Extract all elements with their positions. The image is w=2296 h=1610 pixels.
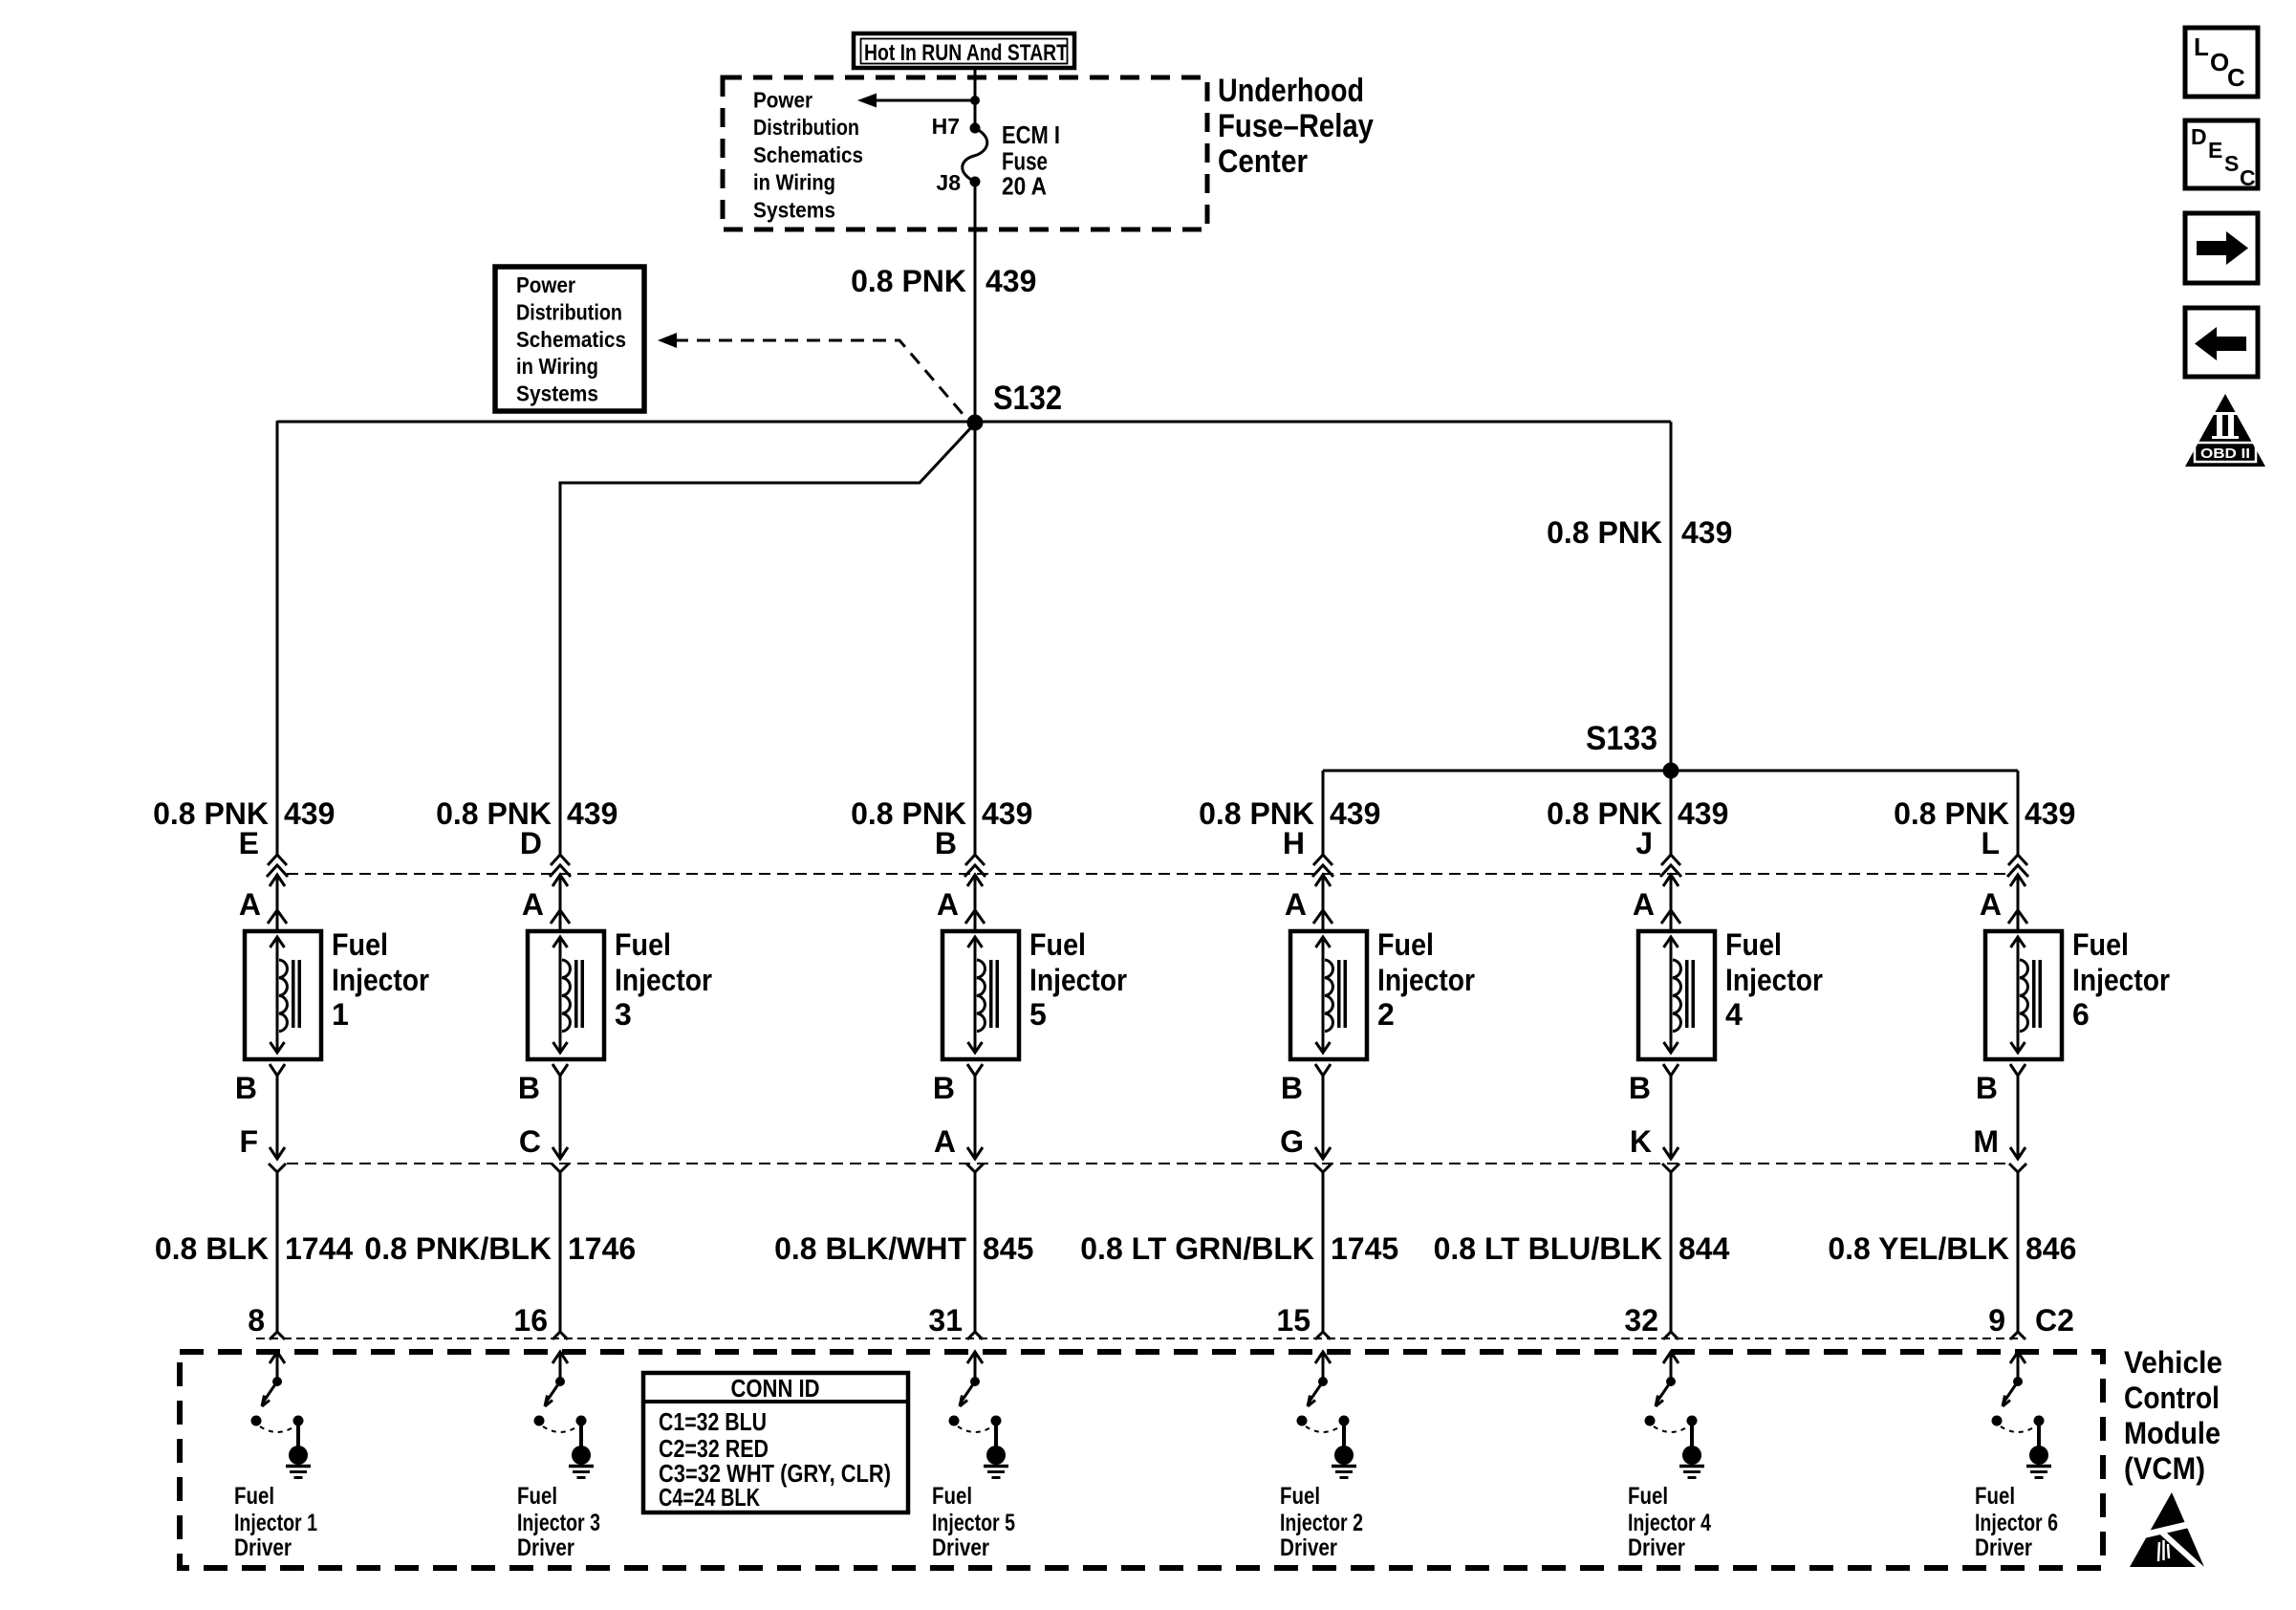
driver transistor (fuel injector 3 driver)	[534, 1352, 587, 1447]
svg-text:Systems: Systems	[516, 381, 598, 406]
svg-text:0.8 YEL/BLK: 0.8 YEL/BLK	[1828, 1231, 2009, 1266]
label Fuel Injector 5	[1029, 927, 1127, 1032]
svg-text:J8: J8	[936, 170, 961, 195]
label Underhood Fuse-Relay Center	[1218, 73, 1374, 180]
svg-text:Fuel: Fuel	[332, 927, 388, 962]
svg-text:Injector 6: Injector 6	[1975, 1510, 2058, 1536]
svg-text:16: 16	[513, 1303, 548, 1338]
wire label 0.8 PNK 439 (injector 2 feed)	[1199, 796, 1380, 831]
icon DESC button	[2185, 120, 2258, 190]
svg-text:E: E	[239, 826, 259, 860]
table CONN ID	[643, 1373, 908, 1512]
driver transistor (fuel injector 4 driver)	[1645, 1352, 1698, 1447]
svg-text:B: B	[235, 1071, 257, 1105]
label Fuel Injector 3 Driver	[517, 1483, 600, 1561]
svg-text:32: 32	[1624, 1303, 1658, 1338]
icon back arrow button	[2185, 308, 2258, 377]
pin A (injector 6)	[1980, 887, 2027, 924]
wire drop to injector 4	[1670, 771, 1673, 857]
svg-text:ECM I: ECM I	[1002, 122, 1060, 149]
wire injector 6 pin B to connector	[2017, 1076, 2020, 1159]
svg-text:Injector: Injector	[2072, 963, 2170, 997]
connector terminal A (injector 5 return)	[934, 1124, 984, 1172]
svg-text:Driver: Driver	[1280, 1534, 1337, 1561]
svg-text:0.8 PNK: 0.8 PNK	[1547, 515, 1662, 550]
svg-text:Fuel: Fuel	[1725, 927, 1782, 962]
label Fuel Injector 6	[2072, 927, 2170, 1032]
label Fuel Injector 3	[615, 927, 712, 1032]
wire S133 bus	[1323, 770, 2018, 772]
ground (injector 6 driver)	[2026, 1446, 2051, 1478]
svg-text:439: 439	[284, 796, 335, 831]
pin J8	[936, 170, 980, 195]
svg-text:Control: Control	[2124, 1381, 2220, 1415]
svg-text:0.8 BLK/WHT: 0.8 BLK/WHT	[774, 1231, 966, 1266]
pin 9 (VCM)	[1988, 1303, 2074, 1339]
svg-text:(VCM): (VCM)	[2124, 1451, 2205, 1486]
svg-text:Driver: Driver	[1975, 1534, 2032, 1561]
svg-text:S: S	[2224, 151, 2239, 176]
svg-text:Driver: Driver	[1628, 1534, 1685, 1561]
svg-text:Underhood: Underhood	[1218, 73, 1364, 109]
driver transistor (fuel injector 6 driver)	[1992, 1352, 2045, 1447]
wire label 0.8 PNK 439 (injector 6 feed)	[1894, 796, 2075, 831]
svg-text:A: A	[937, 887, 959, 922]
svg-text:0.8 LT GRN/BLK: 0.8 LT GRN/BLK	[1080, 1231, 1314, 1266]
svg-text:A: A	[239, 887, 261, 922]
pin 32 (VCM)	[1624, 1303, 1679, 1339]
wire label 0.8 PNK 439 (injector 1 feed)	[153, 796, 335, 831]
svg-text:M: M	[1973, 1124, 1999, 1159]
label Fuel Injector 1	[332, 927, 429, 1032]
svg-text:439: 439	[986, 264, 1036, 298]
pin B (injector 6)	[1976, 1064, 2025, 1105]
wire injector 5 return to VCM	[974, 1172, 977, 1332]
svg-text:in Wiring: in Wiring	[516, 354, 598, 379]
wire injector 6 return to VCM	[2017, 1172, 2020, 1332]
svg-text:C2: C2	[2035, 1303, 2074, 1338]
svg-text:Fuel: Fuel	[932, 1483, 972, 1510]
connector terminal L (injector 6)	[1981, 826, 2028, 877]
pin 8 (VCM)	[248, 1303, 285, 1339]
connector terminal F (injector 1 return)	[239, 1124, 286, 1172]
svg-text:Schematics: Schematics	[516, 327, 626, 352]
svg-text:Injector: Injector	[1029, 963, 1127, 997]
svg-text:B: B	[1629, 1071, 1651, 1105]
svg-text:Hot In RUN And START: Hot In RUN And START	[864, 40, 1068, 66]
ground (injector 2 driver)	[1332, 1446, 1356, 1478]
svg-text:D: D	[520, 826, 542, 860]
svg-text:1: 1	[332, 997, 349, 1032]
svg-text:20 A: 20 A	[1002, 174, 1047, 201]
pin B (injector 4)	[1629, 1064, 1679, 1105]
svg-text:Fuel: Fuel	[615, 927, 671, 962]
wire label 0.8 LT GRN/BLK 1745	[1080, 1231, 1398, 1266]
svg-text:C1=32 BLU: C1=32 BLU	[659, 1407, 767, 1436]
label Fuel Injector 2 Driver	[1280, 1483, 1363, 1561]
wire injector 4 return to VCM	[1670, 1172, 1673, 1332]
wire injector 4 pin B to connector	[1670, 1076, 1673, 1159]
svg-text:3: 3	[615, 997, 632, 1032]
svg-text:A: A	[1633, 887, 1655, 922]
svg-text:B: B	[518, 1071, 540, 1105]
svg-text:S132: S132	[993, 380, 1062, 417]
svg-text:845: 845	[983, 1231, 1033, 1266]
svg-text:Driver: Driver	[517, 1534, 574, 1561]
svg-text:A: A	[522, 887, 544, 922]
wire injector 1 pin B to connector	[276, 1076, 279, 1159]
svg-text:C: C	[2227, 63, 2245, 92]
svg-text:H7: H7	[932, 114, 960, 139]
svg-text:G: G	[1280, 1124, 1304, 1159]
svg-text:2: 2	[1377, 997, 1395, 1032]
junction S133	[1663, 763, 1679, 779]
wire injector 3 pin B to connector	[559, 1076, 562, 1159]
svg-text:Fuse: Fuse	[1002, 149, 1048, 176]
svg-text:Injector: Injector	[332, 963, 429, 997]
svg-text:E: E	[2208, 138, 2222, 163]
svg-text:9: 9	[1988, 1303, 2005, 1338]
svg-text:Injector: Injector	[1377, 963, 1475, 997]
pin 15 (VCM)	[1276, 1303, 1331, 1339]
pin A (injector 4)	[1633, 887, 1680, 924]
svg-text:Systems: Systems	[753, 197, 835, 222]
svg-text:439: 439	[1678, 796, 1728, 831]
pin H7	[932, 114, 981, 139]
svg-text:15: 15	[1276, 1303, 1310, 1338]
icon forward arrow button	[2185, 213, 2258, 283]
svg-text:0.8 PNK: 0.8 PNK	[851, 264, 966, 298]
splice S132 label	[993, 380, 1062, 417]
connector line (injector harness, bottom)	[287, 1163, 2012, 1164]
svg-text:1746: 1746	[568, 1231, 636, 1266]
wire label 0.8 PNK 439 (injector 4 feed)	[1547, 796, 1728, 831]
wire label 0.8 PNK 439 (injector 5 feed)	[851, 796, 1032, 831]
wire connector to injector 1 pin A	[270, 875, 285, 931]
wire from Hot In RUN to fuse	[974, 68, 977, 130]
svg-text:6: 6	[2072, 997, 2090, 1032]
ground (injector 4 driver)	[1679, 1446, 1704, 1478]
wire label 0.8 PNK/BLK 1746	[364, 1231, 636, 1266]
svg-text:Fuel: Fuel	[1975, 1483, 2015, 1510]
svg-text:A: A	[934, 1124, 956, 1159]
icon ESD warning symbol	[2130, 1492, 2204, 1570]
svg-text:in Wiring: in Wiring	[753, 170, 835, 195]
svg-text:C4=24 BLK: C4=24 BLK	[659, 1483, 760, 1512]
pin B (injector 2)	[1281, 1064, 1331, 1105]
svg-text:846: 846	[2025, 1231, 2076, 1266]
svg-text:Fuse–Relay: Fuse–Relay	[1218, 108, 1374, 144]
label Fuel Injector 1 Driver	[234, 1483, 317, 1561]
wire drop to injector 3	[560, 426, 972, 857]
svg-text:J: J	[1635, 826, 1653, 860]
svg-text:B: B	[1976, 1071, 1998, 1105]
svg-text:Injector: Injector	[1725, 963, 1823, 997]
splice S133 label	[1586, 720, 1657, 757]
svg-text:CONN ID: CONN ID	[731, 1374, 820, 1403]
svg-text:Injector 3: Injector 3	[517, 1510, 600, 1536]
pin B (injector 1)	[235, 1064, 285, 1105]
svg-text:K: K	[1630, 1124, 1652, 1159]
svg-text:8: 8	[248, 1303, 265, 1338]
svg-text:439: 439	[982, 796, 1032, 831]
icon LOC button	[2185, 28, 2258, 97]
pin 16 (VCM)	[513, 1303, 568, 1339]
connector line (injector harness, top)	[287, 873, 2012, 875]
wire connector to injector 2 pin A	[1315, 875, 1331, 931]
fuel injector 4	[1638, 931, 1715, 1059]
svg-text:B: B	[1281, 1071, 1303, 1105]
wire injector 2 pin B to connector	[1322, 1076, 1325, 1159]
svg-text:H: H	[1283, 826, 1305, 860]
svg-text:OBD II: OBD II	[2200, 446, 2250, 462]
svg-text:Power: Power	[516, 272, 575, 297]
ground (injector 5 driver)	[984, 1446, 1008, 1478]
wire drop to injector 5	[974, 423, 977, 857]
connector terminal G (injector 2 return)	[1280, 1124, 1332, 1172]
wire connector to injector 6 pin A	[2010, 875, 2025, 931]
wire label 0.8 LT BLU/BLK 844	[1434, 1231, 1730, 1266]
svg-text:0.8 LT BLU/BLK: 0.8 LT BLU/BLK	[1434, 1231, 1662, 1266]
svg-text:Fuel: Fuel	[517, 1483, 557, 1510]
svg-text:1744: 1744	[285, 1231, 353, 1266]
fuse value label ECM I Fuse 20 A	[1002, 122, 1060, 201]
wire arrow to power distribution schematics	[857, 94, 980, 108]
connector box Underhood Fuse-Relay Center (dashed)	[723, 77, 1207, 229]
label Fuel Injector 4 Driver	[1628, 1483, 1711, 1561]
module box Vehicle Control Module (dashed)	[180, 1352, 2103, 1568]
svg-text:439: 439	[567, 796, 617, 831]
svg-text:Center: Center	[1218, 143, 1308, 180]
wire drop to injector 1	[276, 421, 279, 857]
note box Power Distribution Schematics in Wiring Systems	[495, 267, 644, 411]
dashed reference arrow to note box	[658, 333, 964, 415]
label Fuel Injector 6 Driver	[1975, 1483, 2058, 1561]
wire label 0.8 PNK 439 (right branch)	[1547, 515, 1732, 550]
connector line C2 (VCM)	[256, 1338, 2018, 1339]
svg-text:Fuel: Fuel	[1280, 1483, 1320, 1510]
svg-text:844: 844	[1679, 1231, 1730, 1266]
svg-text:Driver: Driver	[234, 1534, 292, 1561]
svg-text:F: F	[239, 1124, 258, 1159]
svg-text:L: L	[1981, 826, 2000, 860]
svg-text:Fuel: Fuel	[2072, 927, 2129, 962]
svg-text:Fuel: Fuel	[234, 1483, 274, 1510]
wire injector 2 return to VCM	[1322, 1172, 1325, 1332]
wire injector 1 return to VCM	[276, 1172, 279, 1332]
fuel injector 1	[245, 931, 321, 1059]
wire label 0.8 PNK 439 (fuse feed)	[851, 264, 1036, 298]
svg-text:Power: Power	[753, 88, 812, 113]
label Fuel Injector 2	[1377, 927, 1475, 1032]
svg-text:S133: S133	[1586, 720, 1657, 757]
svg-text:L: L	[2194, 33, 2209, 61]
connector terminal B (injector 5)	[935, 826, 986, 877]
svg-text:C: C	[519, 1124, 541, 1159]
note Power Distribution Schematics in Wiring Systems (in fuse box)	[753, 88, 863, 223]
connector terminal J (injector 4)	[1635, 826, 1681, 877]
svg-text:B: B	[933, 1071, 955, 1105]
pin A (injector 2)	[1285, 887, 1332, 924]
svg-text:D: D	[2191, 124, 2207, 149]
svg-text:Fuel: Fuel	[1628, 1483, 1668, 1510]
svg-text:Schematics: Schematics	[753, 142, 863, 167]
svg-text:5: 5	[1029, 997, 1047, 1032]
label Vehicle Control Module (VCM)	[2124, 1345, 2222, 1486]
driver transistor (fuel injector 1 driver)	[251, 1352, 304, 1447]
svg-text:Distribution: Distribution	[753, 115, 859, 140]
connector terminal M (injector 6 return)	[1973, 1124, 2026, 1172]
svg-text:Injector 2: Injector 2	[1280, 1510, 1363, 1536]
wire label 0.8 BLK 1744	[155, 1231, 354, 1266]
svg-text:Distribution: Distribution	[516, 299, 622, 324]
icon OBD II triangle	[2185, 394, 2265, 467]
svg-text:0.8 PNK/BLK: 0.8 PNK/BLK	[364, 1231, 552, 1266]
pin A (injector 3)	[522, 887, 570, 924]
fuel injector 3	[528, 931, 604, 1059]
svg-text:0.8 BLK: 0.8 BLK	[155, 1231, 269, 1266]
svg-text:Injector 1: Injector 1	[234, 1510, 317, 1536]
driver transistor (fuel injector 5 driver)	[949, 1352, 1002, 1447]
svg-text:Driver: Driver	[932, 1534, 989, 1561]
svg-text:Injector 4: Injector 4	[1628, 1510, 1711, 1536]
svg-text:Fuel: Fuel	[1029, 927, 1086, 962]
wire label 0.8 PNK 439 (injector 3 feed)	[436, 796, 617, 831]
power label Hot In RUN And START	[854, 33, 1074, 68]
wire connector to injector 3 pin A	[552, 875, 568, 931]
wire drop to injector 2	[1322, 771, 1325, 857]
svg-text:4: 4	[1725, 997, 1743, 1032]
fuse F-ECM I 20 A	[963, 128, 987, 182]
fuel injector 2	[1290, 931, 1367, 1059]
svg-text:439: 439	[1330, 796, 1380, 831]
wire injector 5 pin B to connector	[974, 1076, 977, 1159]
wire main bus from S132	[277, 421, 1671, 424]
connector terminal E (injector 1)	[239, 826, 288, 877]
driver transistor (fuel injector 2 driver)	[1297, 1352, 1350, 1447]
wire connector to injector 4 pin A	[1663, 875, 1679, 931]
junction S132	[967, 415, 984, 431]
svg-text:Fuel: Fuel	[1377, 927, 1434, 962]
svg-text:A: A	[1980, 887, 2002, 922]
svg-text:439: 439	[2025, 796, 2075, 831]
wire injector 3 return to VCM	[559, 1172, 562, 1332]
label Fuel Injector 4	[1725, 927, 1823, 1032]
svg-text:A: A	[1285, 887, 1307, 922]
wire connector to injector 5 pin A	[967, 875, 983, 931]
wire label 0.8 BLK/WHT 845	[774, 1231, 1033, 1266]
pin A (injector 1)	[239, 887, 287, 924]
connector terminal H (injector 2)	[1283, 826, 1333, 877]
svg-text:B: B	[935, 826, 957, 860]
pin A (injector 5)	[937, 887, 985, 924]
wire fuse to S132	[974, 182, 977, 423]
svg-text:C: C	[2240, 165, 2256, 190]
svg-text:Module: Module	[2124, 1416, 2220, 1450]
connector terminal C (injector 3 return)	[519, 1124, 569, 1172]
svg-text:Vehicle: Vehicle	[2124, 1345, 2222, 1380]
wire right branch down to S133	[1670, 422, 1673, 771]
svg-text:1745: 1745	[1331, 1231, 1398, 1266]
pin B (injector 5)	[933, 1064, 983, 1105]
ground (injector 1 driver)	[286, 1446, 311, 1478]
svg-text:31: 31	[928, 1303, 963, 1338]
ground (injector 3 driver)	[569, 1446, 594, 1478]
fuel injector 6	[1985, 931, 2062, 1059]
pin B (injector 3)	[518, 1064, 568, 1105]
wire drop to injector 6	[2017, 771, 2020, 857]
pin 31 (VCM)	[928, 1303, 983, 1339]
label Fuel Injector 5 Driver	[932, 1483, 1015, 1561]
svg-text:Injector: Injector	[615, 963, 712, 997]
connector terminal D (injector 3)	[520, 826, 571, 877]
fuel injector 5	[942, 931, 1019, 1059]
connector terminal K (injector 4 return)	[1630, 1124, 1679, 1172]
svg-text:439: 439	[1681, 515, 1732, 550]
svg-text:Injector 5: Injector 5	[932, 1510, 1015, 1536]
wire label 0.8 YEL/BLK 846	[1828, 1231, 2076, 1266]
